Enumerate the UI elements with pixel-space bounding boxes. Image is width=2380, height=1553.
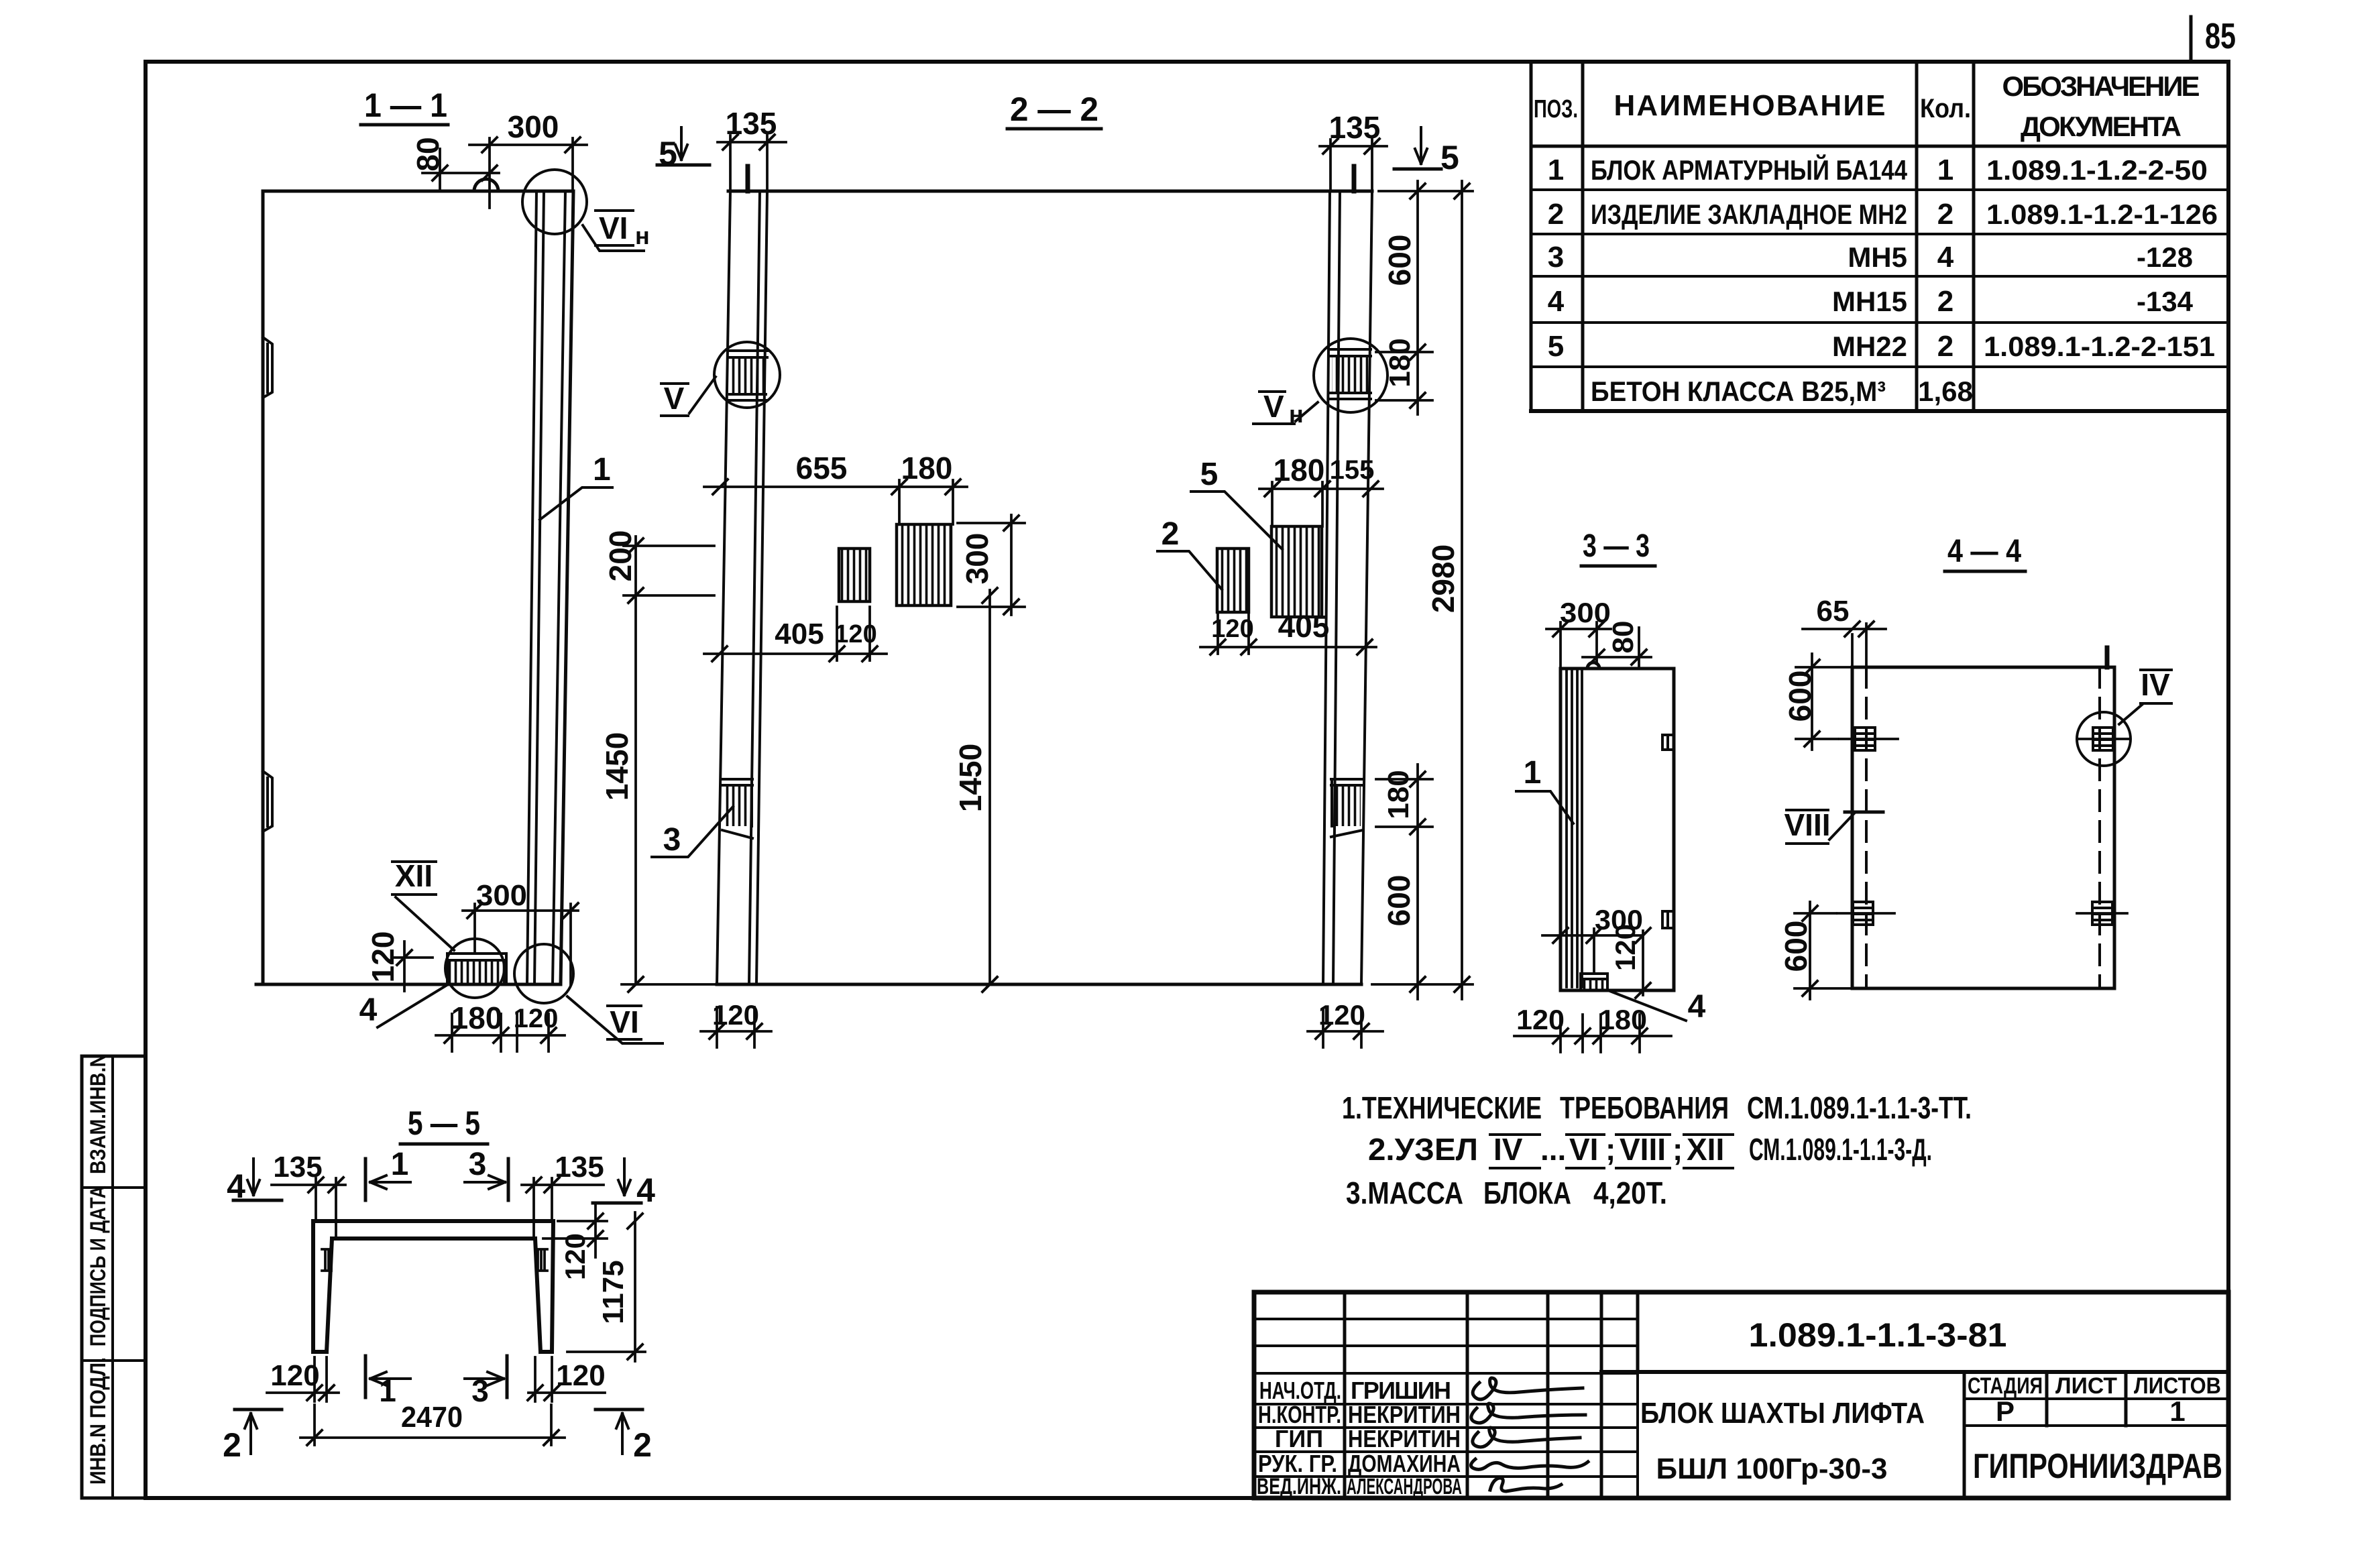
svg-text:300: 300 (508, 109, 559, 144)
svg-text:600: 600 (1382, 235, 1417, 286)
svg-text:1: 1 (379, 1373, 396, 1408)
view 3-3 wall lines (1567, 669, 1582, 987)
svg-text:65: 65 (1817, 595, 1850, 628)
view 2-2 outline top and bottom edges (717, 191, 1372, 984)
svg-text:XII: XII (1687, 1132, 1724, 1167)
view 2-2 detail circle V (714, 342, 780, 408)
svg-text:1450: 1450 (600, 732, 634, 801)
view 2-2 dim 135 right (1320, 139, 1387, 191)
svg-text:655: 655 (796, 451, 848, 485)
view 4-4 dim 65 (1803, 624, 1886, 667)
svg-text:3.МАССА: 3.МАССА (1346, 1175, 1463, 1210)
svg-text:АЛЕКСАНДРОВА: АЛЕКСАНДРОВА (1347, 1474, 1462, 1499)
svg-text:1.089.1-1.2-2-50: 1.089.1-1.2-2-50 (1986, 154, 2208, 186)
svg-text:4 — 4: 4 — 4 (1947, 534, 2021, 569)
view 3-3 right edge tab lower (1662, 911, 1674, 928)
svg-text:ТРЕБОВАНИЯ: ТРЕБОВАНИЯ (1560, 1090, 1729, 1125)
view 5-5 section mark 1 top (364, 1159, 367, 1200)
svg-text:5: 5 (1440, 139, 1459, 176)
view 5-5 right leg key (538, 1249, 547, 1271)
svg-text:;: ; (1605, 1132, 1616, 1167)
svg-text:120: 120 (270, 1359, 319, 1392)
view 1-1 detail circle VI (514, 944, 573, 1003)
view 1-1 lifting loop (474, 179, 498, 191)
svg-text:2: 2 (223, 1426, 241, 1464)
view 3-3 lifting loop (1587, 663, 1599, 669)
view 2-2 embedded item big hatched left (897, 524, 951, 606)
svg-text:2 — 2: 2 — 2 (1010, 91, 1098, 128)
svg-text:V: V (664, 381, 685, 416)
view 1-1 detail circle XII (445, 939, 504, 998)
svg-text:135: 135 (555, 1151, 604, 1184)
svg-text:ГРИШИН: ГРИШИН (1351, 1377, 1451, 1404)
svg-text:600: 600 (1778, 921, 1813, 972)
svg-text:ДОМАХИНА: ДОМАХИНА (1348, 1450, 1461, 1477)
view 2-2 embedded item big hatched right (1271, 526, 1322, 617)
svg-text:135: 135 (726, 106, 777, 141)
view 5-5 dim 135 left (272, 1178, 345, 1237)
svg-text:200: 200 (603, 530, 638, 582)
view 2-2 dim 655/180 (704, 480, 967, 524)
svg-text:2: 2 (1937, 198, 1953, 231)
view 5-5 dim 135 right (522, 1178, 604, 1237)
svg-text:80: 80 (1607, 621, 1640, 654)
svg-text:135: 135 (273, 1151, 322, 1184)
svg-text:300: 300 (1560, 597, 1611, 628)
svg-text:120: 120 (556, 1359, 605, 1392)
svg-text:VIII: VIII (1620, 1132, 1666, 1167)
svg-text:БЛОК ШАХТЫ ЛИФТА: БЛОК ШАХТЫ ЛИФТА (1640, 1397, 1925, 1430)
view 2-2 lifting tick left (746, 166, 750, 191)
view 2-2 dim 2980 (1372, 181, 1473, 999)
svg-text:НАИМЕНОВАНИЕ: НАИМЕНОВАНИЕ (1614, 89, 1886, 122)
svg-text:2470: 2470 (401, 1401, 463, 1434)
view 1-1 embedded plate item4 (hatched) (447, 954, 506, 984)
svg-text:600: 600 (1782, 671, 1817, 722)
svg-text:РУК. ГР.: РУК. ГР. (1258, 1450, 1337, 1477)
view 2-2 dim 405/120 left (704, 607, 887, 660)
svg-text:120: 120 (1516, 1004, 1565, 1035)
svg-text:ГИП: ГИП (1275, 1425, 1323, 1452)
svg-text:;: ; (1673, 1132, 1683, 1167)
svg-text:120: 120 (559, 1233, 591, 1280)
svg-text:VI: VI (599, 211, 628, 245)
svg-text:НАЧ.ОТД.: НАЧ.ОТД. (1259, 1377, 1341, 1404)
view 4-4 plate bottom-right (2092, 902, 2112, 925)
title block signature table verticals (1345, 1292, 1638, 1498)
view 2-2 lifting tick right (1352, 166, 1357, 191)
svg-text:СМ.1.089.1-1.1-3-ТТ.: СМ.1.089.1-1.1-3-ТТ. (1747, 1090, 1972, 1125)
svg-text:180: 180 (1382, 770, 1415, 819)
svg-text:БШЛ 100Гр-30-3: БШЛ 100Гр-30-3 (1656, 1452, 1888, 1485)
view 4-4 lifting tick (2105, 648, 2110, 667)
svg-text:БЕТОН КЛАССА В25,М³: БЕТОН КЛАССА В25,М³ (1591, 376, 1886, 407)
svg-text:ГИПРОНИИЗДРАВ: ГИПРОНИИЗДРАВ (1973, 1447, 2222, 1486)
svg-text:1.089.1-1.2-2-151: 1.089.1-1.2-2-151 (1984, 331, 2215, 362)
svg-text:3: 3 (1548, 241, 1564, 274)
svg-text:2: 2 (1548, 198, 1564, 231)
view 5-5 section mark 3 bottom (506, 1356, 509, 1397)
svg-text:2: 2 (1161, 516, 1180, 552)
svg-text:ИНВ.N ПОДЛ.: ИНВ.N ПОДЛ. (86, 1357, 110, 1485)
svg-text:4: 4 (1688, 989, 1706, 1025)
view 4-4 plate bottom-left (1853, 902, 1873, 925)
svg-text:120: 120 (365, 931, 400, 983)
view 5-5 dim 120 bottom right (528, 1357, 605, 1401)
dim 1450 inside view 2-2 (988, 590, 991, 984)
view 2-2 dim 180/600 lower right (1376, 764, 1432, 999)
view 3-3 right edge tab upper (1662, 735, 1674, 750)
svg-text:120: 120 (834, 620, 876, 648)
view 4-4 dashed axis right (2098, 667, 2101, 988)
svg-text:405: 405 (1278, 609, 1330, 644)
view 4-4 dim 600 upper (1796, 654, 1851, 750)
svg-text:3 — 3: 3 — 3 (1583, 528, 1650, 564)
view 2-2 lower hatch right wall (1331, 779, 1363, 785)
view 5-5 section mark 1 bottom (364, 1356, 367, 1397)
svg-text:120: 120 (1609, 924, 1641, 971)
svg-text:1,68: 1,68 (1918, 376, 1973, 407)
svg-text:1: 1 (1937, 154, 1953, 186)
view 2-2 embedded plate at Vн (hatched) (1330, 349, 1371, 399)
view 3-3 embedded plate item4 (hatched) (1581, 974, 1607, 990)
view 4-4 outline (1852, 667, 2114, 988)
view 5-5 section mark 3 top (507, 1159, 510, 1200)
svg-text:3: 3 (663, 822, 681, 858)
svg-text:2: 2 (633, 1426, 652, 1464)
view 2-2 detail circle Vн (1314, 339, 1387, 412)
svg-text:Р: Р (1996, 1395, 2015, 1427)
svg-text:ОБОЗНАЧЕНИЕ: ОБОЗНАЧЕНИЕ (2002, 70, 2200, 102)
page number tick (2190, 17, 2193, 60)
svg-text:ВЗАМ.ИНВ.N: ВЗАМ.ИНВ.N (86, 1053, 110, 1174)
svg-text:120: 120 (1211, 615, 1253, 643)
svg-text:3: 3 (469, 1147, 487, 1182)
svg-text:2.УЗЕЛ: 2.УЗЕЛ (1368, 1132, 1478, 1167)
svg-text:180: 180 (1383, 338, 1416, 387)
svg-text:4: 4 (359, 992, 378, 1028)
svg-text:180: 180 (901, 451, 953, 485)
view 1-1 label VIн (583, 225, 644, 251)
svg-text:120: 120 (712, 999, 759, 1031)
view 3-3 dim 80 (1583, 628, 1651, 669)
svg-text:600: 600 (1381, 875, 1416, 927)
svg-text:85: 85 (2205, 16, 2236, 56)
view 2-2 embedded item small hatched right (1217, 549, 1249, 612)
view 1-1 dim 300 top (469, 138, 587, 208)
view 2-2 left wall (717, 191, 767, 984)
svg-text:Кол.: Кол. (1920, 94, 1971, 123)
view 3-3 dim 300 top (1546, 622, 1611, 667)
title block signature table rows (1254, 1319, 1638, 1477)
view 4-4 plate top-left (1855, 728, 1875, 750)
stage table (1963, 1372, 1966, 1498)
view 5-5 section mark 4 right (618, 1159, 630, 1195)
svg-text:ВЕД.ИНЖ.: ВЕД.ИНЖ. (1257, 1474, 1341, 1499)
view 1-1 dim 80 (422, 149, 499, 191)
svg-text:1.089.1-1.2-1-126: 1.089.1-1.2-1-126 (1986, 198, 2218, 230)
svg-text:БЛОКА: БЛОКА (1483, 1175, 1571, 1210)
svg-text:4: 4 (1937, 241, 1954, 274)
svg-text:н: н (635, 222, 650, 249)
svg-text:-134: -134 (2137, 286, 2194, 317)
view 4-4 dashed axis left (1865, 667, 1868, 988)
view 1-1 detail circle VIн (522, 170, 587, 234)
view 4-4 dim 600 lower (1795, 902, 1851, 999)
view 5-5 channel outline (313, 1221, 553, 1352)
view 5-5 dim 120 bottom left (267, 1357, 339, 1401)
svg-text:5: 5 (1548, 330, 1564, 363)
view 5-5 left leg key (322, 1249, 331, 1271)
view 5-5 dim 1175 (567, 1212, 645, 1361)
svg-text:МН15: МН15 (1832, 286, 1907, 317)
svg-text:1: 1 (391, 1147, 409, 1182)
view 2-2 dim 120/405 right (1200, 612, 1376, 654)
svg-text:120: 120 (1318, 999, 1365, 1031)
view 1-1 dim 300 bottom (463, 904, 578, 984)
svg-text:V: V (1263, 389, 1284, 424)
svg-text:1: 1 (2169, 1395, 2185, 1427)
view 5-5 section mark 2 left (235, 1408, 282, 1412)
view 1-1 left tab upper (263, 337, 272, 398)
svg-text:1 — 1: 1 — 1 (364, 87, 447, 124)
svg-text:-128: -128 (2137, 241, 2193, 273)
svg-text:СМ.1.089.1-1.1-3-Д.: СМ.1.089.1-1.1-3-Д. (1749, 1132, 1932, 1167)
svg-text:300: 300 (960, 533, 995, 585)
svg-text:4: 4 (1548, 285, 1565, 318)
view 2-2 right wall (1323, 191, 1372, 984)
svg-text:155: 155 (1330, 455, 1375, 485)
svg-text:5 — 5: 5 — 5 (408, 1104, 480, 1142)
svg-text:1: 1 (1524, 755, 1542, 791)
view 2-2 dim 120 bottom right (1308, 1009, 1383, 1047)
view 2-2 dim 120 bottom left (701, 1007, 771, 1047)
view 2-2 dim 600/180 upper right (1376, 181, 1432, 414)
view 2-2 section mark 5 right (1415, 127, 1427, 164)
svg-text:ЛИСТ: ЛИСТ (2055, 1373, 2117, 1399)
svg-text:ПОДПИСЬ И ДАТА: ПОДПИСЬ И ДАТА (86, 1186, 110, 1346)
svg-text:1: 1 (593, 452, 611, 487)
view 3-3 bottom dims 120 and 180 (1514, 1015, 1671, 1052)
view 2-2 dim 300 mid (958, 515, 1025, 615)
view 1-1 outline (256, 191, 573, 984)
svg-text:...: ... (1540, 1132, 1566, 1167)
view 4-4 detail circle IV (2077, 712, 2131, 766)
svg-text:180: 180 (451, 1000, 503, 1035)
view 3-3 dim 300 lower (1542, 929, 1642, 972)
svg-text:VIII: VIII (1784, 807, 1830, 842)
svg-text:120: 120 (514, 1004, 559, 1033)
svg-text:1.089.1-1.1-3-81: 1.089.1-1.1-3-81 (1749, 1316, 2007, 1354)
svg-text:4,20Т.: 4,20Т. (1593, 1175, 1667, 1210)
svg-text:VI: VI (610, 1004, 638, 1039)
svg-text:1.ТЕХНИЧЕСКИЕ: 1.ТЕХНИЧЕСКИЕ (1342, 1090, 1542, 1125)
view 1-1 label VI bottom (567, 996, 663, 1043)
view 3-3 dim 120 rotated (1642, 931, 1644, 995)
svg-text:IV: IV (2141, 667, 2170, 702)
view 1-1 wall lines (527, 191, 565, 984)
svg-text:1: 1 (1548, 154, 1564, 186)
view 1-1 dim 120 left vertical (392, 941, 433, 991)
svg-text:МН22: МН22 (1832, 331, 1907, 362)
svg-text:5: 5 (659, 135, 677, 172)
view 5-5 section mark 2 right (596, 1408, 642, 1412)
svg-text:180: 180 (1599, 1004, 1647, 1035)
svg-text:3: 3 (471, 1373, 489, 1408)
svg-text:2: 2 (1937, 330, 1953, 363)
view 2-2 lower hatch left wall (item 3) (722, 779, 752, 785)
view 1-1 dim 180 bottom (436, 1014, 518, 1051)
svg-text:300: 300 (476, 879, 527, 912)
svg-text:МН5: МН5 (1848, 241, 1907, 273)
view 2-2 dim 135 left (718, 135, 786, 191)
svg-text:ДОКУМЕНТА: ДОКУМЕНТА (2021, 111, 2181, 142)
svg-text:НЕКРИТИН: НЕКРИТИН (1348, 1425, 1461, 1452)
title block center divider (1601, 1370, 2228, 1374)
svg-text:НЕКРИТИН: НЕКРИТИН (1348, 1401, 1461, 1428)
svg-text:VI: VI (1569, 1132, 1598, 1167)
view 1-1 dim 120 bottom (517, 1014, 565, 1051)
view 1-1 left tab lower (263, 771, 272, 831)
left margin strip (82, 1056, 146, 1498)
view 3-3 outline (1561, 669, 1674, 990)
parts table grid (1531, 62, 1974, 411)
svg-text:405: 405 (775, 618, 824, 650)
view 2-2 dim 180/155 right (1259, 482, 1383, 526)
svg-text:1450: 1450 (953, 744, 988, 812)
view 2-2 embedded item small hatched left (839, 549, 870, 601)
view 2-2 embedded plate at V (hatched) (729, 351, 767, 400)
view 5-5 dim 120 right (543, 1206, 607, 1257)
svg-text:XII: XII (395, 858, 433, 893)
svg-text:ИЗДЕЛИЕ ЗАКЛАДНОЕ МН2: ИЗДЕЛИЕ ЗАКЛАДНОЕ МН2 (1591, 198, 1907, 230)
view 4-4 plate top-right (2093, 728, 2113, 750)
svg-text:IV: IV (1493, 1132, 1523, 1167)
dim chain 200/1450 between views (634, 536, 637, 984)
svg-text:1175: 1175 (597, 1260, 630, 1324)
view 5-5 dim 2470 (300, 1405, 565, 1445)
svg-text:180: 180 (1273, 453, 1325, 487)
svg-text:2980: 2980 (1426, 544, 1461, 613)
svg-text:ПОЗ.: ПОЗ. (1534, 95, 1578, 123)
title block outer (1254, 1292, 2228, 1498)
svg-text:80: 80 (410, 137, 445, 171)
svg-text:2: 2 (1937, 285, 1953, 318)
svg-text:БЛОК АРМАТУРНЫЙ БА144: БЛОК АРМАТУРНЫЙ БА144 (1591, 154, 1908, 186)
svg-text:135: 135 (1329, 110, 1381, 145)
svg-text:5: 5 (1200, 457, 1219, 492)
svg-text:Н.КОНТР.: Н.КОНТР. (1258, 1401, 1341, 1428)
